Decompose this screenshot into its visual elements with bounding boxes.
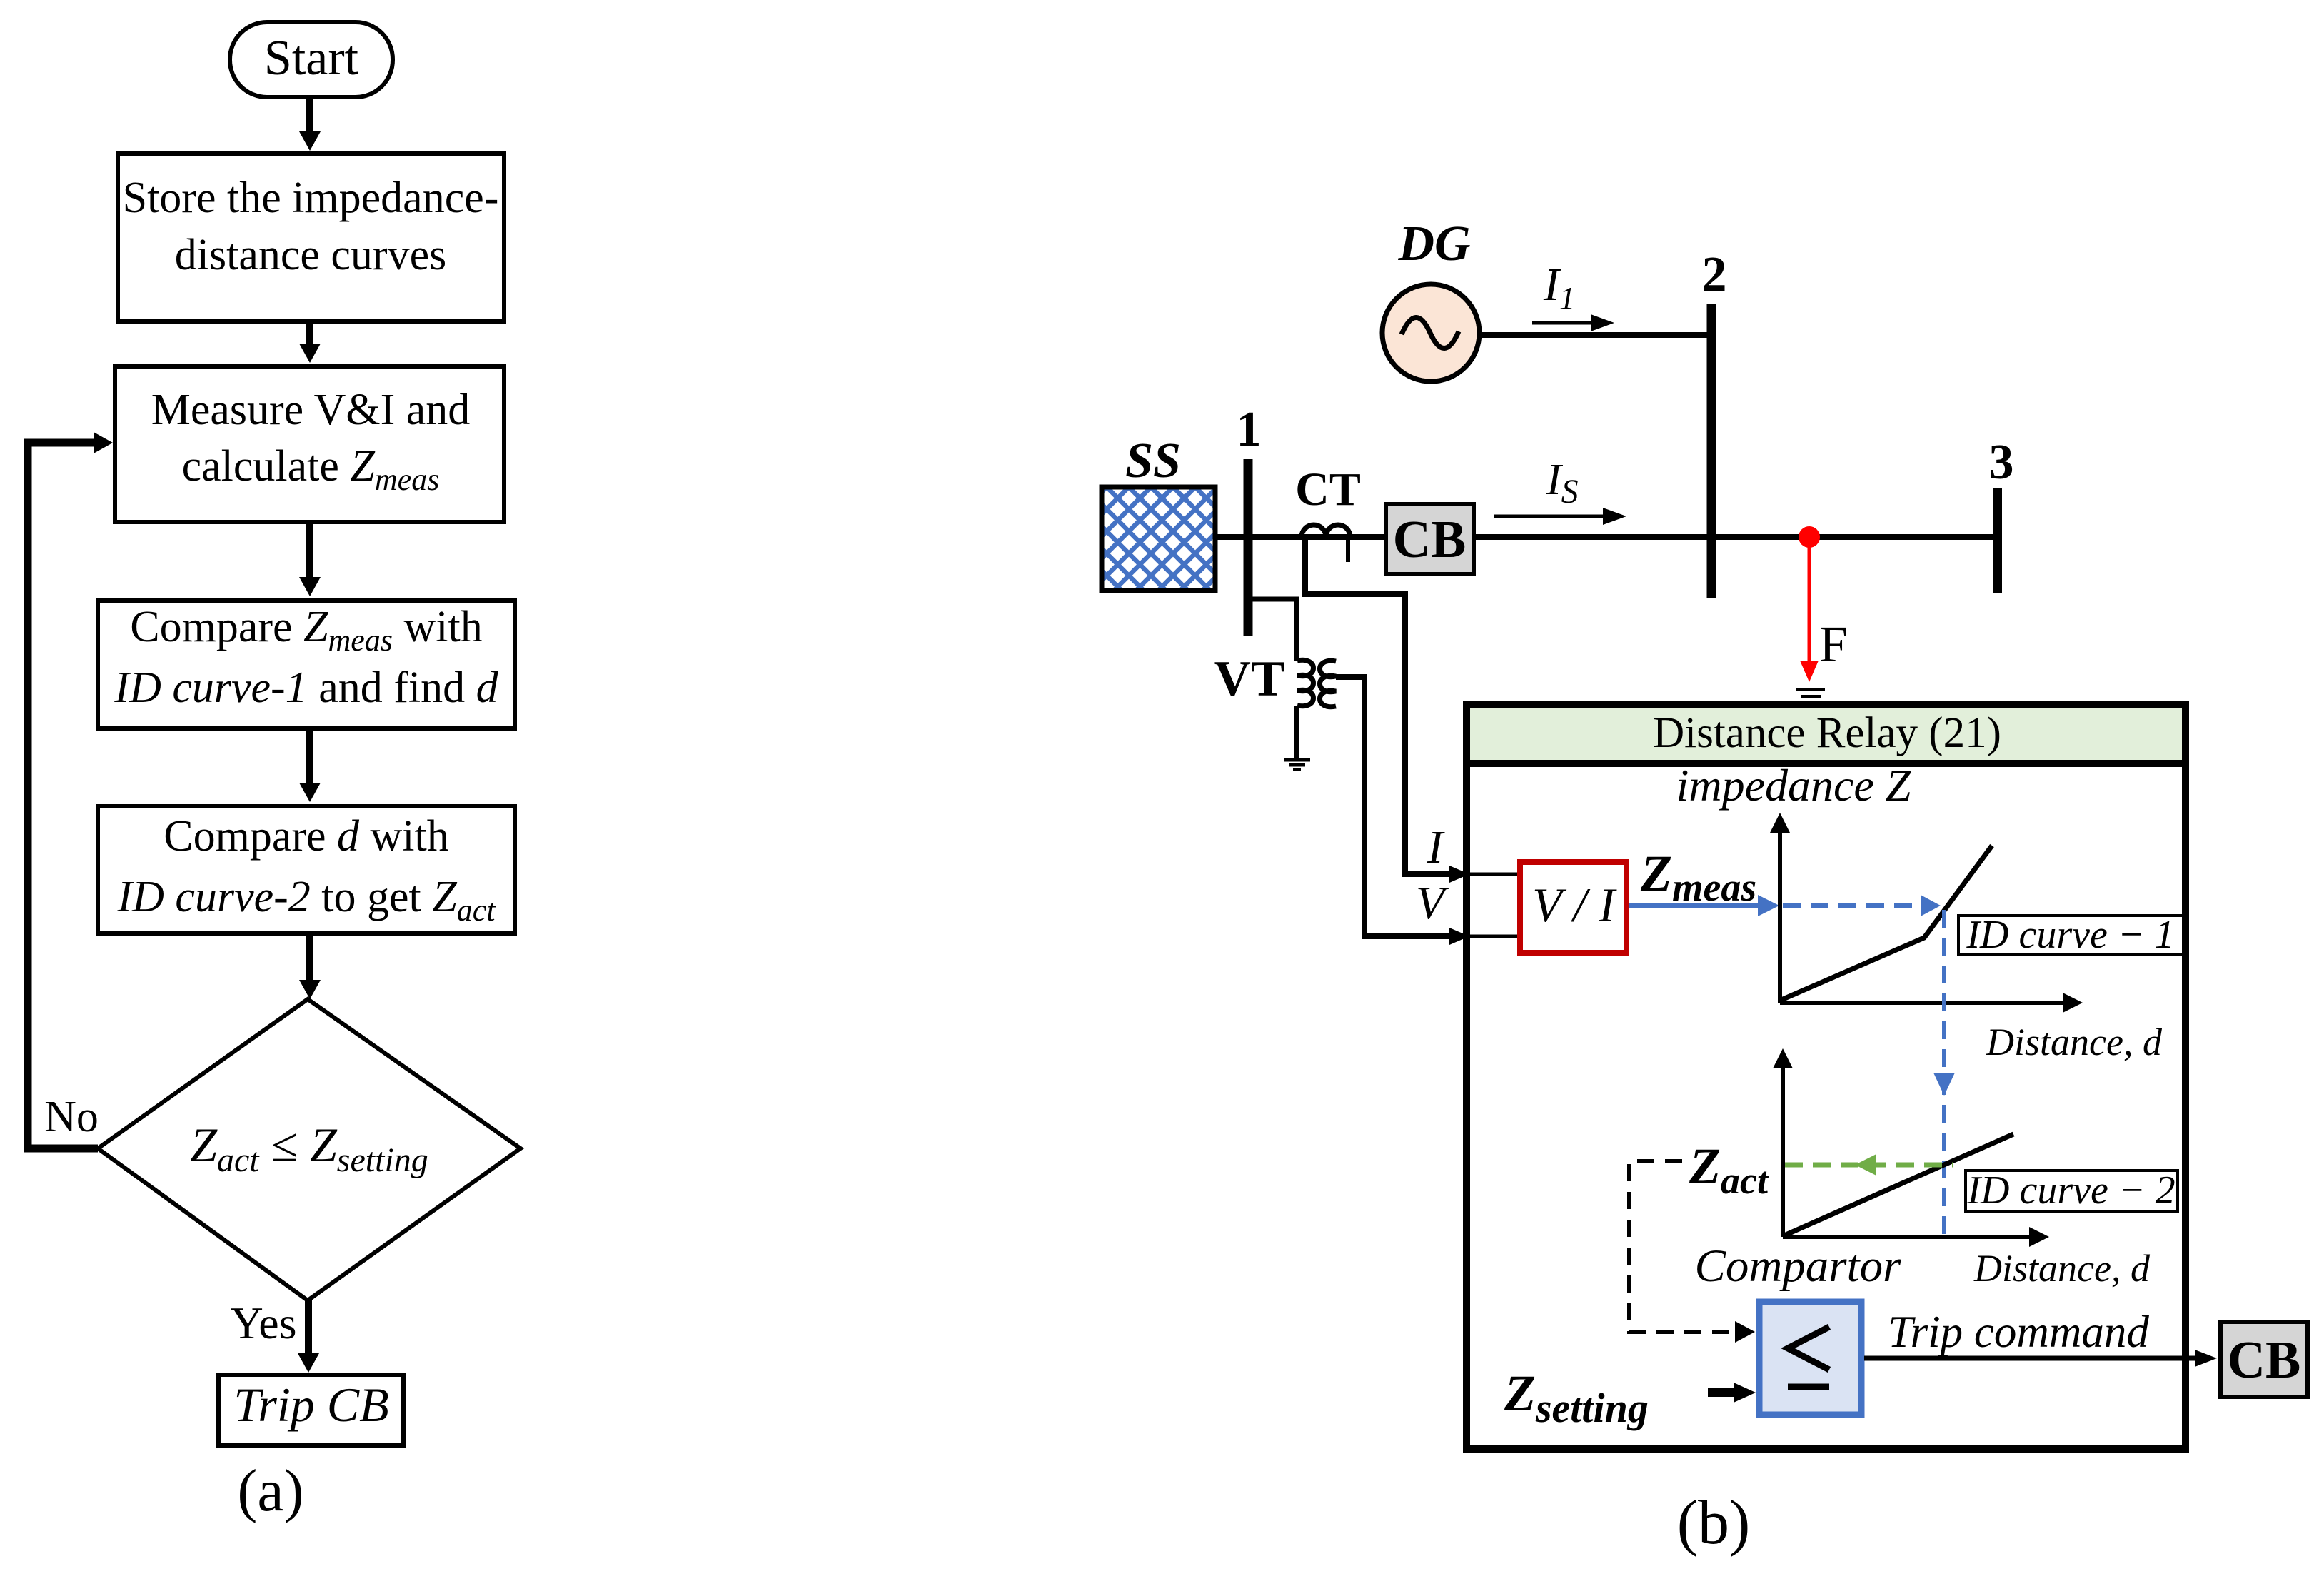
svg-text:F: F [1819, 616, 1848, 673]
wire: DG to bus 2 [1478, 332, 1714, 338]
svg-text:IS: IS [1546, 456, 1579, 511]
arrowhead: I wire into relay [1449, 866, 1469, 883]
ID curve-1 polyline [1781, 846, 1992, 1000]
distance relay outer box [1467, 705, 2185, 1449]
svg-text:CB: CB [1393, 511, 1467, 569]
fault node dot [1799, 526, 1820, 548]
svg-text:Trip CB: Trip CB [233, 1378, 388, 1432]
svg-text:Trip command: Trip command [1888, 1307, 2149, 1357]
annotation arrow I1 [1532, 314, 1614, 331]
sine symbol inside DG [1402, 317, 1459, 348]
process box "Compare Zmeas with ID curve-1 and find d" [98, 601, 515, 728]
wire: VT primary to ground [1294, 706, 1299, 758]
graph2 y-axis [1773, 1048, 1793, 1237]
wire: V into V/I block [1469, 935, 1519, 938]
svg-text:No: No [44, 1093, 99, 1141]
wire: Zmeas blue arrow to axis [1629, 895, 1779, 916]
svg-text:distance curves: distance curves [175, 231, 446, 279]
annotation arrow IS [1494, 508, 1626, 525]
svg-text:SS: SS [1125, 433, 1181, 488]
svg-text:V / I: V / I [1532, 878, 1617, 932]
wire: No loop from diamond back to Measure box [28, 432, 113, 1148]
process box "Compare d with ID curve-2 to get Zact" [98, 806, 515, 933]
black dashed: Zact to comparator [1629, 1161, 1755, 1343]
svg-text:(b): (b) [1677, 1488, 1751, 1558]
svg-text:Compare d with: Compare d with [164, 812, 449, 861]
svg-text:CB: CB [2228, 1331, 2301, 1390]
svg-text:2: 2 [1702, 247, 1727, 302]
bus 1 [1244, 459, 1253, 636]
circuit breaker CB box [1386, 504, 1474, 574]
bus 3 [1993, 488, 2002, 593]
svg-text:(a): (a) [237, 1458, 303, 1524]
generator DG circle [1382, 284, 1479, 381]
process box "Measure V&I and calculate Zmeas" [115, 366, 504, 522]
svg-text:Distance, d: Distance, d [1986, 1021, 2163, 1063]
wire: SS to CB through CT [1215, 534, 1386, 540]
svg-text:Start: Start [264, 31, 359, 86]
svg-text:ID curve-2 to get Zact: ID curve-2 to get Zact [117, 873, 497, 928]
svg-text:VT: VT [1214, 651, 1285, 707]
ID curve-2 line [1784, 1134, 2013, 1235]
circuit breaker CB box (trip output) [2220, 1322, 2308, 1397]
graph1 y-axis [1770, 813, 1790, 1003]
process box "Store the impedance-distance curves" [118, 154, 504, 321]
label box "ID curve - 2" [1966, 1168, 2178, 1213]
wire arrow: Start to Store box [299, 99, 321, 151]
svg-text:I1: I1 [1543, 259, 1575, 316]
svg-text:Yes: Yes [230, 1298, 296, 1348]
label box "ID curve - 1" [1958, 913, 2183, 957]
graph2 x-axis [1783, 1227, 2049, 1247]
wire arrow: Store box to Measure box [299, 324, 321, 363]
process box "Trip CB" [218, 1375, 403, 1445]
relay title bar [1470, 708, 2182, 760]
green dashed: curve 2 to Zact [1785, 1154, 1953, 1176]
voltage transformer VT primary coil [1297, 660, 1314, 706]
wire arrow: diamond to Trip CB box [298, 1300, 319, 1373]
arrowhead: V wire into relay [1449, 928, 1469, 945]
voltage transformer VT secondary coil [1320, 661, 1337, 706]
svg-text:DG: DG [1397, 216, 1470, 271]
svg-text:Compare Zmeas with: Compare Zmeas with [130, 603, 482, 658]
svg-text:ID curve − 1: ID curve − 1 [1966, 913, 2174, 957]
comparator block with <= [1759, 1302, 1861, 1415]
ground at fault [1796, 690, 1825, 696]
arrow: Zsetting into comparator [1708, 1383, 1756, 1403]
start terminator "Start" [230, 22, 393, 97]
wire arrow: Compare-1 box to Compare-2 box [299, 731, 321, 802]
svg-text:Compartor: Compartor [1695, 1240, 1902, 1292]
wire: bus 1 tap down to VT [1251, 599, 1297, 661]
current transformer CT [1302, 525, 1350, 562]
wire: I into V/I block [1469, 873, 1519, 876]
svg-text:ID curve-1 and find d: ID curve-1 and find d [114, 663, 498, 712]
svg-text:Distance, d: Distance, d [1973, 1247, 2151, 1290]
substation SS hatched box [1102, 487, 1215, 591]
ground below VT [1284, 760, 1310, 770]
svg-text:Measure V&I and: Measure V&I and [151, 386, 471, 434]
decision diamond "Zact <= Zsetting" [98, 999, 520, 1300]
svg-text:Distance Relay (21): Distance Relay (21) [1653, 709, 2001, 757]
wire: CB to bus 3 [1474, 534, 1998, 540]
svg-text:I: I [1427, 821, 1445, 873]
wire: VT secondary V lead [1336, 677, 1458, 936]
svg-text:Store the impedance-: Store the impedance- [123, 174, 499, 222]
svg-text:V: V [1416, 877, 1449, 929]
wire arrow: Compare-2 box to decision diamond [299, 933, 321, 999]
bus 2 [1707, 304, 1716, 598]
wire arrow: Measure box to Compare-1 box [299, 524, 321, 596]
V/I block [1520, 862, 1626, 953]
wire: CT secondary I lead [1305, 538, 1458, 874]
blue dashed: Zmeas to curve 1 [1783, 895, 1941, 916]
relay title separator line [1470, 760, 2182, 767]
svg-text:3: 3 [1989, 435, 2014, 490]
svg-text:CT: CT [1295, 463, 1361, 516]
fault arrow F [1800, 537, 1819, 682]
svg-text:impedance Z: impedance Z [1676, 760, 1912, 811]
blue dashed: curve 1 down to curve 2 [1933, 910, 1955, 1234]
wire: trip command to CB [1864, 1350, 2217, 1367]
svg-text:ID curve − 2: ID curve − 2 [1966, 1168, 2175, 1213]
svg-text:1: 1 [1237, 402, 1262, 457]
graph1 x-axis [1780, 993, 2083, 1013]
